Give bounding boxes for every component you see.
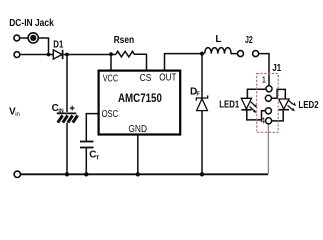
svg-text:DC-IN Jack: DC-IN Jack [9, 18, 54, 29]
svg-text:L: L [215, 34, 221, 45]
svg-text:GND: GND [128, 124, 147, 135]
svg-text:VCC: VCC [103, 74, 118, 85]
svg-text:T: T [96, 155, 100, 161]
svg-text:D1: D1 [53, 39, 63, 50]
svg-text:LED1: LED1 [219, 100, 239, 111]
svg-text:CS: CS [140, 73, 152, 84]
svg-text:J2: J2 [245, 35, 253, 46]
svg-text:F: F [196, 91, 200, 97]
svg-text:Rsen: Rsen [114, 35, 135, 46]
svg-text:OSC: OSC [102, 109, 119, 120]
svg-text:AMC7150: AMC7150 [118, 91, 162, 105]
svg-text:1: 1 [262, 75, 267, 85]
svg-text:IN: IN [58, 109, 63, 115]
svg-text:4: 4 [261, 116, 266, 126]
svg-text:in: in [15, 112, 20, 118]
svg-text:OUT: OUT [159, 73, 176, 84]
svg-text:LED2: LED2 [298, 100, 319, 111]
svg-text:J1: J1 [272, 62, 281, 74]
